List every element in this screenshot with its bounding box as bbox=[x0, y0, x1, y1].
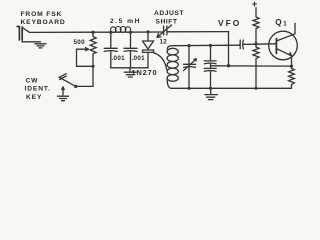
transistor base bar bbox=[275, 39, 277, 54]
switch key arm bbox=[59, 77, 76, 86]
svg-text:CW: CW bbox=[26, 78, 39, 85]
key hash marks bbox=[60, 74, 67, 80]
node dot bias bottom bbox=[254, 87, 257, 90]
key actuator arrow bbox=[62, 87, 64, 95]
wire coil bottom to bus bbox=[167, 79, 171, 88]
svg-text:VFO: VFO bbox=[218, 18, 241, 28]
variable cap arrow bbox=[184, 59, 197, 71]
capacitor C1 .001 leads bbox=[110, 32, 112, 68]
wire arc diode to coil tap bbox=[154, 53, 167, 70]
node dot pot top bbox=[91, 31, 94, 34]
wire top bus (jack to pot) bbox=[30, 31, 94, 33]
svg-text:2.5 mH: 2.5 mH bbox=[110, 18, 141, 25]
svg-text:SHIFT: SHIFT bbox=[156, 18, 178, 25]
svg-text:KEYBOARD: KEYBOARD bbox=[21, 19, 66, 26]
node dot key contact bbox=[74, 85, 77, 88]
trimmer arrow (adjust shift) bbox=[157, 25, 172, 37]
wire wiper to pot bottom bbox=[77, 49, 94, 66]
node dot var cap bottom bbox=[187, 87, 190, 90]
wire pot bottom to key bbox=[76, 66, 93, 86]
node dot tap corner bbox=[227, 64, 230, 67]
jack tip contact bbox=[22, 28, 29, 33]
wire coupling cap to base bbox=[244, 43, 276, 46]
svg-text:500: 500 bbox=[74, 39, 86, 46]
node dot emitter junction bbox=[290, 65, 293, 68]
node dot choke left / C1 bbox=[109, 31, 112, 34]
wire trimmer to corner bbox=[167, 31, 229, 33]
wire tap to emitter bbox=[211, 65, 292, 67]
capacitor C2 .001 leads bbox=[130, 32, 132, 68]
resistor bias lower bbox=[253, 44, 259, 88]
inductor 2.5 mH choke bbox=[111, 27, 131, 33]
wire ground rail (C1 C2 diode) bbox=[111, 67, 148, 69]
capacitor coupling plates bbox=[240, 40, 244, 49]
transistor Q1 circle bbox=[269, 31, 298, 60]
svg-text:.001: .001 bbox=[112, 55, 126, 62]
capacitor variable tank leads bbox=[188, 46, 190, 89]
svg-text:KEY: KEY bbox=[26, 94, 42, 101]
svg-text:IDENT.: IDENT. bbox=[25, 86, 51, 93]
capacitor trimmer 12 plates bbox=[164, 26, 167, 35]
node dot cap pair top bbox=[209, 44, 212, 47]
resistor 500 pot bbox=[90, 32, 96, 66]
pot wiper arrow bbox=[77, 48, 89, 51]
svg-text:1N270: 1N270 bbox=[132, 68, 158, 77]
emitter arrowhead bbox=[289, 53, 292, 56]
resistor emitter bbox=[289, 66, 295, 88]
ground (bypass) bbox=[124, 68, 136, 77]
svg-text:12: 12 bbox=[160, 38, 168, 45]
transistor emitter bbox=[276, 49, 291, 67]
wire top bus (pot to choke) bbox=[93, 31, 111, 33]
capacitor C1 plates bbox=[104, 48, 117, 51]
transistor collector bbox=[276, 23, 295, 41]
capacitor C2 plates bbox=[124, 48, 137, 51]
svg-text:.001: .001 bbox=[132, 55, 146, 62]
capacitor variable plates bbox=[184, 64, 196, 67]
node dot base junction bbox=[254, 42, 257, 45]
capacitor CA plates bbox=[204, 61, 216, 64]
inductor L1 tank coil bbox=[167, 48, 178, 55]
svg-text:Q: Q bbox=[275, 18, 282, 27]
svg-text:+: + bbox=[252, 0, 258, 10]
jack J1 (FSK keyboard input) bbox=[17, 27, 22, 41]
resistor bias upper bbox=[253, 8, 259, 44]
wire bottom bus bbox=[172, 87, 292, 89]
capacitor pair CA lead bbox=[210, 46, 212, 61]
ground (key) bbox=[58, 96, 69, 101]
capacitor CB plates bbox=[204, 68, 216, 71]
node dot diode top bbox=[146, 30, 149, 33]
svg-text:FROM FSK: FROM FSK bbox=[21, 11, 63, 18]
ground (tank bottom) bbox=[205, 88, 218, 99]
wire tank rail bbox=[167, 45, 240, 49]
wire CA-CB tap bbox=[210, 64, 212, 68]
wire corner down to tap node bbox=[228, 32, 230, 66]
svg-text:1: 1 bbox=[283, 20, 287, 27]
wire jack sleeve to ground bbox=[22, 40, 40, 42]
svg-text:ADJUST: ADJUST bbox=[154, 10, 184, 17]
node dot C2 top bbox=[129, 31, 132, 34]
wire CB bottom lead bbox=[210, 72, 212, 89]
wire bus under choke bbox=[111, 31, 164, 33]
node dot var cap top bbox=[187, 44, 190, 47]
diode 1N270 bbox=[143, 32, 154, 68]
ground (jack) bbox=[35, 44, 46, 48]
node dot CB bottom bbox=[209, 87, 212, 90]
node dot pot bottom junction bbox=[91, 65, 94, 68]
